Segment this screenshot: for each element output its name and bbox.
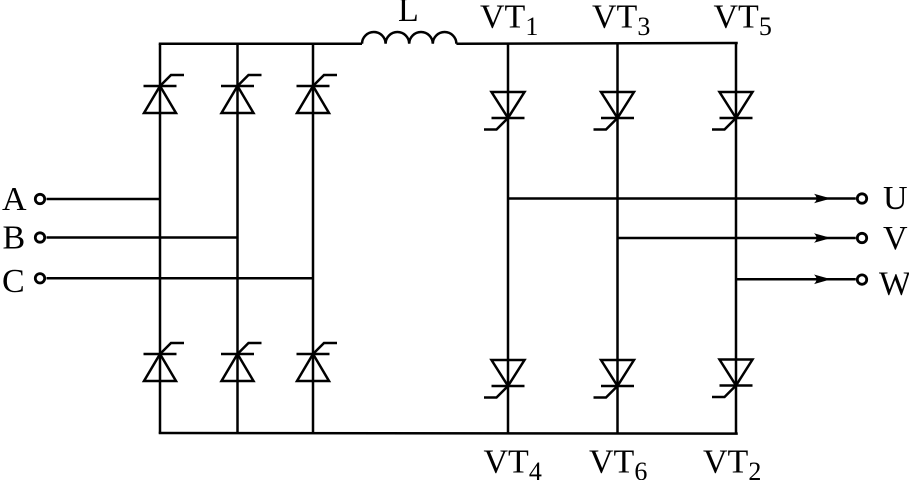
svg-text:V: V [883,220,908,257]
svg-text:VT1: VT1 [480,0,538,41]
svg-text:A: A [2,181,27,218]
svg-text:W: W [879,266,909,303]
svg-text:L: L [398,0,419,29]
svg-text:U: U [883,180,908,217]
svg-text:VT3: VT3 [592,0,650,41]
svg-text:VT5: VT5 [714,0,772,41]
svg-text:VT6: VT6 [589,444,647,480]
svg-text:B: B [3,220,26,257]
svg-text:VT4: VT4 [484,444,542,480]
svg-text:VT2: VT2 [703,444,761,480]
svg-text:C: C [2,263,25,300]
